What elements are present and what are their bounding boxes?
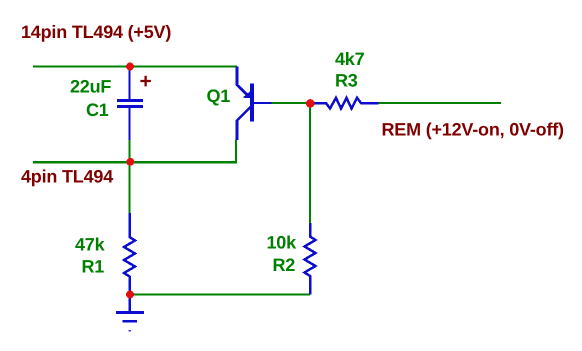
wire 4pin TL494 bottom rail to Q1 collector (33, 140, 236, 163)
svg-text:14pin TL494 (+5V): 14pin TL494 (+5V) (21, 22, 171, 42)
node dot: +5V rail / C1 top (126, 63, 134, 71)
node dot: 4pin rail / C1 bottom (126, 158, 134, 166)
svg-text:+: + (140, 70, 152, 93)
wire +5V top rail (14pin TL494 to Q1 emitter) (33, 65, 237, 67)
svg-text:R1: R1 (82, 257, 105, 277)
resistor R1 (124, 213, 135, 295)
svg-text:R3: R3 (335, 71, 358, 91)
wire Q1 base to junction node (271, 102, 312, 104)
node dot: R1 bottom / ground (126, 291, 134, 299)
wire C1 bottom lead to 4pin rail down to R1 (128, 140, 130, 215)
svg-text:10k: 10k (267, 233, 298, 253)
resistor R2 (305, 223, 316, 295)
resistor R3 (313, 98, 379, 109)
wire junction down to R2 (309, 103, 311, 224)
capacitor C1 (117, 67, 143, 141)
svg-text:4k7: 4k7 (335, 49, 365, 69)
svg-text:Q1: Q1 (207, 86, 231, 106)
wire REM output (379, 102, 502, 104)
wire bottom: R1 node to R2 bottom (130, 293, 310, 295)
svg-text:22uF: 22uF (70, 77, 111, 97)
transistor Q1 (237, 67, 272, 141)
svg-text:REM (+12V-on, 0V-off): REM (+12V-on, 0V-off) (382, 120, 565, 140)
node dot: Q1 base / R2 / R3 (306, 99, 315, 108)
svg-text:4pin TL494: 4pin TL494 (21, 167, 113, 187)
svg-text:C1: C1 (86, 100, 109, 120)
svg-text:47k: 47k (75, 235, 106, 255)
ground (116, 295, 144, 332)
svg-text:R2: R2 (273, 255, 296, 275)
